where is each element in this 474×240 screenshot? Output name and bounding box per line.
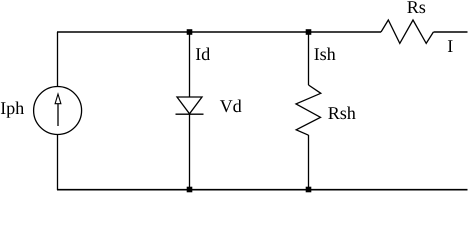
current source arrow head [55, 94, 61, 104]
resistor Rs zigzag [381, 20, 433, 43]
label Iph [1, 102, 24, 118]
diode cathode bar [176, 113, 204, 115]
wire diode branch upper [189, 32, 191, 97]
node junction bottom diode [187, 187, 193, 193]
node junction top shunt [306, 29, 312, 35]
wire top horizontal from left corner to Rs [57, 31, 381, 33]
wire left vertical lower [57, 135, 59, 191]
node junction top diode [187, 29, 193, 35]
resistor Rsh zigzag [296, 85, 321, 135]
label Id [196, 48, 210, 61]
label Ish [314, 48, 335, 61]
current source arrow shaft [57, 103, 59, 126]
label Rs [407, 1, 425, 13]
wire shunt branch upper [308, 32, 310, 85]
current source Iph circle [34, 87, 82, 135]
wire top right from Rs to output [434, 31, 468, 33]
node junction bottom shunt [306, 187, 312, 193]
label Rsh [328, 107, 355, 120]
label I [448, 40, 453, 52]
diode D triangle [177, 97, 202, 114]
wire left vertical upper [57, 32, 59, 87]
wire diode branch lower [189, 114, 191, 190]
wire shunt branch lower [308, 135, 310, 190]
label Vd [220, 100, 242, 113]
wire bottom horizontal [57, 189, 468, 191]
